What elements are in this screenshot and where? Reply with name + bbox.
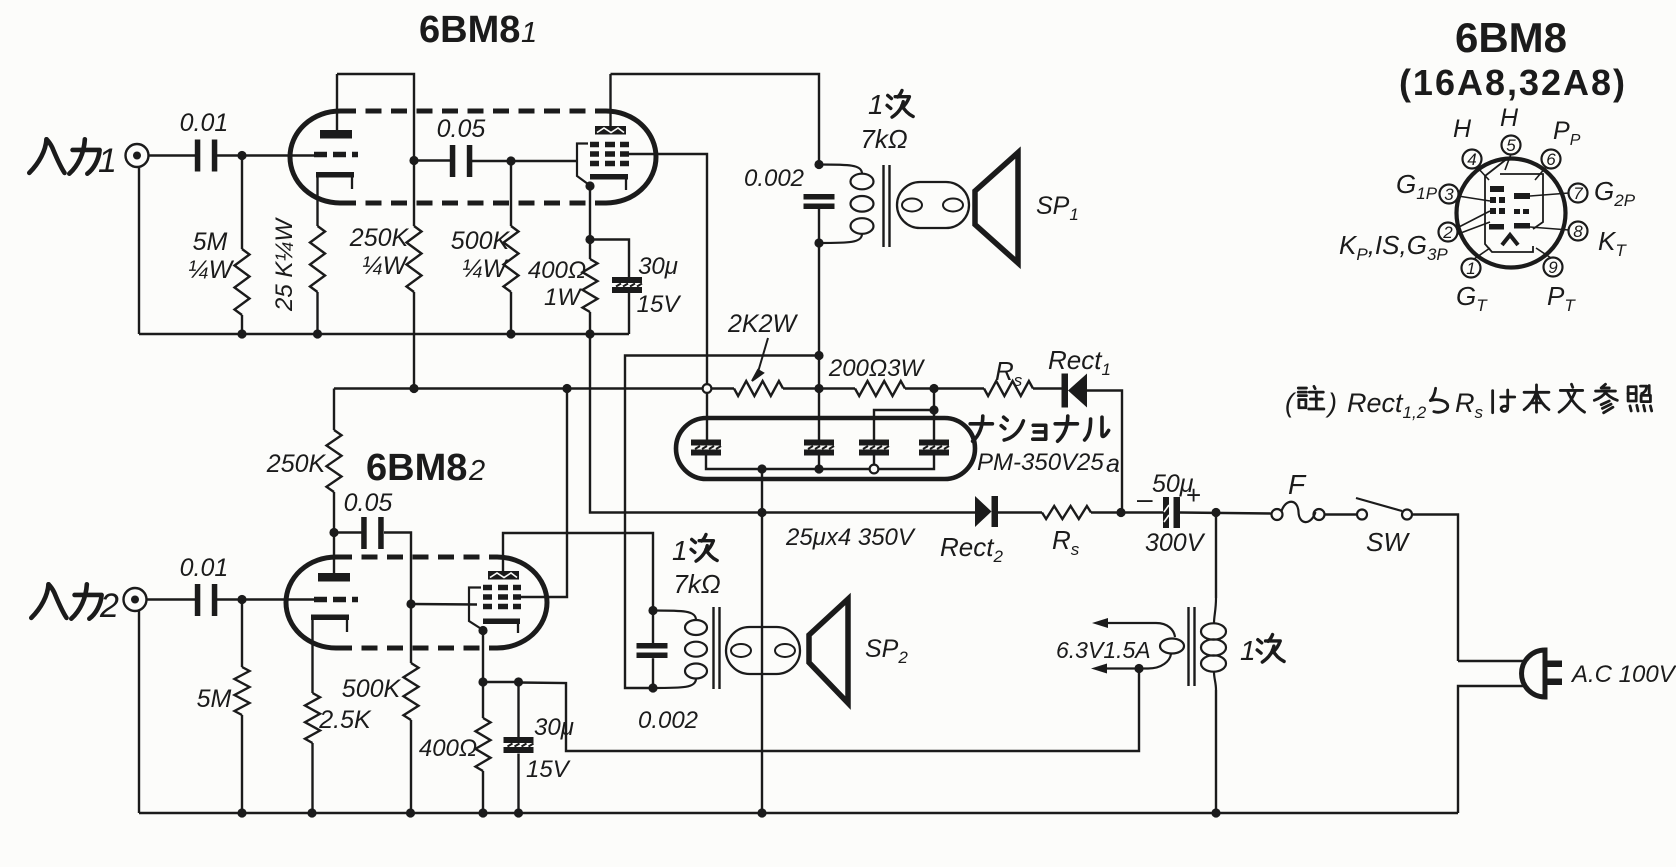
node T2 primary top xyxy=(648,606,657,615)
resistor R3 250K 1/4W xyxy=(407,161,422,389)
pin 5 xyxy=(1502,136,1521,156)
resistor R4 500K 1/4W xyxy=(504,161,519,334)
svg-text:8: 8 xyxy=(1573,222,1583,241)
svg-text:1: 1 xyxy=(1466,259,1475,278)
label 6.3V 1.5A xyxy=(1056,637,1151,663)
diode Rect2 xyxy=(975,496,998,527)
label C5 300V xyxy=(1145,529,1206,557)
label C3 30u 15V xyxy=(637,253,682,318)
label pin4 H xyxy=(1453,115,1472,143)
wire C9 segments xyxy=(652,611,654,689)
label F xyxy=(1288,469,1307,500)
triode V1a cathode xyxy=(316,172,354,189)
svg-text:2K2W: 2K2W xyxy=(727,310,798,338)
heater arrow bottom xyxy=(1091,664,1107,674)
svg-text:¼W: ¼W xyxy=(462,255,509,283)
resistor R7 200ohm 3W xyxy=(855,381,905,396)
connector J2 input jack 2 xyxy=(124,588,147,611)
pinout internal electrodes xyxy=(1489,186,1530,230)
tube V1 envelope top xyxy=(340,109,606,114)
label C5 minus xyxy=(1137,483,1153,514)
node T1 primary bottom xyxy=(814,238,823,247)
node B- lower xyxy=(757,508,766,517)
wire R1 bottom xyxy=(241,315,243,334)
svg-text:3: 3 xyxy=(1444,185,1454,204)
svg-text:15V: 15V xyxy=(637,291,682,318)
svg-text:–: – xyxy=(1137,483,1153,514)
svg-text:30μ: 30μ xyxy=(534,714,574,741)
label R9 250K xyxy=(266,450,327,478)
capacitor C6 0.01 xyxy=(195,584,218,616)
wire switch to plug xyxy=(1412,515,1458,662)
resistor R11 500K xyxy=(404,604,419,813)
wire Rs2 to nodeX xyxy=(1091,511,1164,513)
wire V1a plate top bracket xyxy=(337,74,414,161)
label SP2 xyxy=(865,635,908,667)
wire C2 to pentode grid xyxy=(472,160,577,162)
node heater junction xyxy=(1134,664,1143,673)
label C5 plus xyxy=(1186,480,1201,510)
pin 8 xyxy=(1569,222,1588,242)
capacitor-can outline xyxy=(676,418,975,479)
resistor R5 400ohm 1W xyxy=(583,240,598,335)
wire V1a plate lead xyxy=(336,74,338,130)
resistor R10 2.5K xyxy=(305,620,320,813)
pin 6 xyxy=(1542,150,1561,170)
svg-text:1: 1 xyxy=(1240,635,1256,666)
pentode V1b grid row2 xyxy=(590,151,629,157)
label C4 0.002 xyxy=(744,165,804,192)
pin 2 xyxy=(1439,223,1458,243)
wire J2 to C6 xyxy=(147,598,197,600)
transformer T1 core xyxy=(884,165,890,247)
wire grid2p to pentode xyxy=(411,603,477,606)
wire C3 bottom xyxy=(628,293,630,334)
svg-text:9: 9 xyxy=(1548,258,1558,277)
wire fuse to switch xyxy=(1325,513,1358,515)
wire J1 to C1 xyxy=(149,154,197,156)
wire C6 to V2 grid xyxy=(215,598,314,600)
tube V2 envelope top xyxy=(336,555,497,560)
wire R2 bottom xyxy=(316,292,318,334)
wire B- drop xyxy=(761,469,763,813)
svg-text:+: + xyxy=(1186,480,1201,510)
capacitor C5 50u 300V xyxy=(1163,497,1180,528)
svg-text:250K: 250K xyxy=(266,450,327,478)
svg-text:1: 1 xyxy=(521,17,537,49)
label R8 5M xyxy=(197,685,232,713)
svg-text:6: 6 xyxy=(1546,150,1556,169)
svg-text:250K: 250K xyxy=(349,224,410,252)
wire T1 B+ drop xyxy=(818,209,820,440)
capacitor can-C4 25u xyxy=(919,440,949,456)
label R2 25K 1/4W rotated xyxy=(271,217,298,312)
svg-text:2: 2 xyxy=(1442,223,1453,242)
wire ch1 ground rail xyxy=(139,333,629,335)
capacitor C4 0.002 xyxy=(804,194,835,209)
svg-text:25 K¼W: 25 K¼W xyxy=(271,217,298,312)
label R5 400 1W xyxy=(528,257,586,311)
svg-text:2: 2 xyxy=(468,455,485,487)
svg-text:400Ω: 400Ω xyxy=(419,735,477,762)
pentode V2b plate xyxy=(488,571,519,580)
label T2 1ji 7k xyxy=(672,534,721,599)
wire V1b screen to can xyxy=(629,154,707,440)
node cathode2 RC split xyxy=(478,677,487,686)
svg-text:4: 4 xyxy=(1467,150,1476,169)
label R7 200 3W xyxy=(828,355,926,382)
transformer T1 secondary xyxy=(897,182,969,228)
diode Rect1 xyxy=(1062,374,1088,408)
node grid2p junction xyxy=(406,599,415,608)
resistor Rs1 xyxy=(984,381,1033,396)
svg-text:15V: 15V xyxy=(526,756,571,783)
label Rs2 xyxy=(1052,525,1080,559)
svg-text:0.01: 0.01 xyxy=(180,554,229,582)
label T1 1ji 7k xyxy=(860,89,913,154)
pentode V1b plate xyxy=(595,126,626,135)
svg-text:30μ: 30μ xyxy=(638,253,678,280)
svg-text:0.002: 0.002 xyxy=(638,707,698,734)
speaker SP1 xyxy=(975,153,1018,264)
wire gnd to rect2 xyxy=(590,334,762,513)
svg-text:5M: 5M xyxy=(197,685,232,713)
resistor R2 25K 1/4W xyxy=(310,226,325,292)
label R3 250K 1/4W xyxy=(349,224,410,280)
transformer T3 core xyxy=(1189,607,1195,686)
triode V2a plate xyxy=(318,573,350,582)
label C5 50u xyxy=(1152,470,1194,498)
node plate1 junction xyxy=(409,156,418,165)
capacitor C7 0.05 xyxy=(361,517,384,549)
triode V1a grid dashes xyxy=(314,152,358,158)
tube V1 envelope right arc xyxy=(606,111,656,203)
speaker SP2 xyxy=(809,599,848,703)
pentode V2b grid row3 xyxy=(483,604,521,610)
svg-text:A.C 100V: A.C 100V xyxy=(1570,661,1676,688)
pentode V2b grid row2 xyxy=(483,594,521,600)
capacitor C6 0.01 label xyxy=(180,554,229,582)
switch SW xyxy=(1356,498,1412,520)
node V2b screen tap xyxy=(562,384,571,393)
pin 3 xyxy=(1440,185,1459,205)
svg-text:200Ω3W: 200Ω3W xyxy=(828,355,926,382)
svg-text:25μx4 350V: 25μx4 350V xyxy=(785,524,916,551)
svg-text:300V: 300V xyxy=(1145,529,1206,557)
label pin9 PT xyxy=(1547,281,1576,315)
label pin8 KT xyxy=(1598,226,1627,260)
wire cap3 feed xyxy=(874,410,934,440)
svg-text:7: 7 xyxy=(1573,184,1583,203)
svg-text:0.002: 0.002 xyxy=(744,165,804,192)
pentode V1b cathode xyxy=(590,174,628,190)
label pin1 GT xyxy=(1456,281,1488,315)
note rect rs xyxy=(1285,384,1652,422)
pentode V2b grid row1 xyxy=(483,585,521,591)
svg-text:0.05: 0.05 xyxy=(437,115,486,143)
node 500K tap xyxy=(506,156,515,165)
node can C3 bus open xyxy=(870,465,879,474)
tube V2 envelope right arc xyxy=(497,557,547,648)
svg-text:SW: SW xyxy=(1366,527,1410,557)
wire rect2 left xyxy=(762,511,975,513)
svg-text:5: 5 xyxy=(1506,136,1516,155)
pentode V2b grid bracket xyxy=(469,588,483,631)
capacitor C3 30u 15V xyxy=(612,277,642,293)
node R10-gnd xyxy=(406,808,415,817)
svg-text:6BM8: 6BM8 xyxy=(1455,14,1567,61)
wire V2b plate lead xyxy=(503,533,653,611)
pentode V1b grid row3 xyxy=(590,161,629,167)
plug prongs xyxy=(1545,661,1562,686)
label R11 500K xyxy=(342,675,402,703)
label 16A8 32A8 xyxy=(1399,62,1627,103)
node V2b cathode junction xyxy=(478,626,487,635)
wire C8 branch xyxy=(483,681,519,683)
resistor Rs2 xyxy=(1042,506,1091,519)
label C9 0.002 xyxy=(638,707,698,734)
wire V1a cathode lead xyxy=(316,178,318,227)
svg-text:¼W: ¼W xyxy=(188,256,235,284)
label R4 500K 1/4W xyxy=(451,227,511,283)
node R8-gnd xyxy=(237,808,246,817)
label Rect1 xyxy=(1048,345,1111,379)
label can natsionaru xyxy=(970,416,1108,441)
triode V1a plate xyxy=(320,130,352,139)
svg-text:H: H xyxy=(1453,115,1472,143)
transformer T2 primary xyxy=(653,611,707,689)
node R4-gnd xyxy=(506,329,515,338)
pentode V1b grid row1 xyxy=(590,142,629,148)
label AC 100V xyxy=(1570,661,1676,688)
plug AC body xyxy=(1522,650,1545,697)
tube V2 envelope left arc xyxy=(286,557,336,648)
tube V1 envelope left arc xyxy=(290,111,340,203)
wire 200 to Rs xyxy=(905,387,934,389)
wire V1b cathode lead xyxy=(589,186,591,240)
wire V1b plate top bracket xyxy=(611,74,820,165)
node screen open circle xyxy=(703,384,712,393)
transformer T1 primary xyxy=(819,165,874,244)
svg-text:5M: 5M xyxy=(193,228,228,256)
svg-text:1W: 1W xyxy=(544,284,582,311)
transformer T2 secondary xyxy=(726,627,800,674)
svg-text:0.01: 0.01 xyxy=(180,109,229,137)
pinout circle xyxy=(1457,159,1566,268)
wire plug bottom xyxy=(1458,686,1524,813)
resistor R12 400ohm xyxy=(476,682,491,813)
wire plate2 to C7 xyxy=(334,531,366,533)
svg-text:7kΩ: 7kΩ xyxy=(860,124,907,154)
svg-text:2: 2 xyxy=(99,587,119,625)
wire B+ line xyxy=(334,387,734,389)
node T3 gnd xyxy=(1211,808,1220,817)
node AC tap xyxy=(1211,508,1220,517)
wire V1b plate lead xyxy=(609,74,611,126)
label T3 1ji xyxy=(1240,635,1284,666)
pinout heater chevron xyxy=(1502,235,1518,245)
node C8 top xyxy=(514,677,523,686)
pentode V2b cathode xyxy=(483,619,520,634)
capacitor C1 0.01 xyxy=(195,140,218,172)
node B- rail xyxy=(757,808,766,817)
capacitor C7 0.05 label xyxy=(344,489,393,517)
svg-text:a: a xyxy=(1106,450,1120,478)
node R9-gnd xyxy=(307,808,316,817)
capacitor C2 0.05 xyxy=(450,145,473,177)
label 6BM8 title xyxy=(1455,14,1567,61)
resistor R9 250K xyxy=(327,389,342,533)
svg-text:¼W: ¼W xyxy=(362,252,409,280)
svg-text:(16A8,32A8): (16A8,32A8) xyxy=(1399,62,1627,103)
wire heater return xyxy=(519,669,1139,752)
transformer T3 heater winding xyxy=(1107,623,1184,669)
svg-text:2.5K: 2.5K xyxy=(318,706,372,734)
svg-text:1: 1 xyxy=(672,535,688,566)
label Rs1 xyxy=(995,356,1023,390)
label input-2 入力2 xyxy=(31,584,119,625)
svg-text:1: 1 xyxy=(98,142,117,180)
node X xyxy=(1116,508,1125,517)
svg-text:PM-350V25: PM-350V25 xyxy=(977,449,1104,476)
wire J1 ground drop xyxy=(138,167,140,334)
node R1-gnd xyxy=(237,329,246,338)
label R6 2K2W xyxy=(727,310,798,381)
pin 4 xyxy=(1463,150,1482,170)
node R2-gnd xyxy=(313,329,322,338)
node R3 bottom B+ xyxy=(409,384,418,393)
svg-text:6BM8: 6BM8 xyxy=(419,9,520,51)
node B+ OPT junction xyxy=(814,384,823,393)
wire plug top xyxy=(1458,660,1524,662)
wire C8 lead xyxy=(517,682,519,737)
wire V2b screen xyxy=(521,389,567,598)
svg-text:1: 1 xyxy=(868,89,884,120)
pentode V1b grid bracket xyxy=(577,144,590,186)
label SW xyxy=(1366,527,1410,557)
capacitor C1 0.01 label xyxy=(180,109,229,137)
node T2 primary bottom xyxy=(648,683,657,692)
pin 1 xyxy=(1462,259,1481,279)
wire Rect1 to node X xyxy=(1087,391,1122,513)
node R5-gnd xyxy=(585,329,594,338)
label Rect2 xyxy=(940,532,1003,566)
label can 25ux4 350V xyxy=(785,524,916,551)
wire 5M R1 top xyxy=(241,156,243,250)
label V1 6BM8 1 xyxy=(419,9,537,51)
triode V2a cathode xyxy=(311,615,349,633)
label input-1 入力1 xyxy=(29,139,117,180)
resistor R1 5M 1/4W xyxy=(235,249,250,315)
capacitor C9 0.002 xyxy=(637,643,668,658)
wire C5 to fuse node xyxy=(1180,513,1272,514)
heater arrow top xyxy=(1092,618,1108,628)
label R12 400 xyxy=(419,735,477,762)
transformer T3 primary xyxy=(1201,513,1226,691)
label SP1 xyxy=(1036,192,1079,224)
label C8 30u 15V xyxy=(526,714,574,783)
wire C3 branch xyxy=(590,240,629,278)
pinout pin wires xyxy=(1457,154,1569,259)
wire T2 B+ feed xyxy=(625,356,819,689)
transformer T2 core xyxy=(714,607,720,689)
wire plate2 lead xyxy=(333,533,335,574)
svg-text:F: F xyxy=(1288,469,1307,500)
svg-text:6.3V1.5A: 6.3V1.5A xyxy=(1056,637,1151,663)
node cathode1 RC split xyxy=(585,235,594,244)
label pin5 H xyxy=(1500,104,1519,132)
wire Rs1 left xyxy=(934,387,984,389)
pin 9 xyxy=(1544,258,1563,278)
tube V1 envelope bottom xyxy=(340,201,606,206)
connector J1 input jack 1 xyxy=(126,144,149,167)
wire C8 bottom xyxy=(517,754,519,814)
label pin6 PP xyxy=(1553,117,1581,149)
label V2 6BM8 2 xyxy=(366,447,485,489)
wire 2K to 200 xyxy=(783,387,855,389)
resistor R6 2K 2W xyxy=(734,381,783,396)
label R1 5M 1/4W xyxy=(188,228,235,284)
node cap34 jog xyxy=(929,405,938,414)
tube V2 envelope bottom xyxy=(336,646,497,651)
resistor R8 5M xyxy=(235,600,250,814)
triode V2a grid dashes xyxy=(314,597,358,603)
wire C1 to V1 grid xyxy=(215,154,314,156)
label pin3 G1P xyxy=(1396,169,1438,203)
node grid1 junction xyxy=(237,151,246,160)
capacitor can-C1 25u xyxy=(691,440,721,456)
node can C2 bus xyxy=(814,464,823,473)
label pin7 G2P xyxy=(1594,176,1636,210)
svg-text:400Ω: 400Ω xyxy=(528,257,586,284)
node can bus B- xyxy=(757,464,766,473)
svg-text:H: H xyxy=(1500,104,1519,132)
svg-text:500K: 500K xyxy=(342,675,402,703)
label pin2 KP IS G3P xyxy=(1339,230,1448,264)
pin 7 xyxy=(1569,184,1588,204)
svg-text:500K: 500K xyxy=(451,227,511,255)
wire Rs1 to Rect1 xyxy=(1033,387,1063,389)
fuse F xyxy=(1272,502,1325,522)
wire C7 to grid node xyxy=(384,533,411,605)
node plate2 junction xyxy=(329,528,338,537)
svg-text:6BM8: 6BM8 xyxy=(366,447,467,489)
wire rect2 to Rs2 xyxy=(998,511,1042,513)
wire cap4 feed xyxy=(933,389,935,441)
svg-text:7kΩ: 7kΩ xyxy=(673,569,720,599)
wire J2 ground drop xyxy=(138,611,140,813)
wire V2b cathode lead xyxy=(482,631,484,683)
capacitor can-C3 25u xyxy=(859,440,889,456)
node T1 feed junction xyxy=(814,351,823,360)
capacitor can-C2 25u xyxy=(804,440,834,456)
capacitor C2 0.05 label xyxy=(437,115,486,143)
node grid2 junction xyxy=(237,595,246,604)
label can PM-350V25a xyxy=(977,449,1120,478)
svg-text:0.05: 0.05 xyxy=(344,489,393,517)
node B+ first filter xyxy=(929,384,938,393)
pinout internal shield xyxy=(1485,158,1543,252)
node V1b cathode junction xyxy=(585,181,594,190)
wire plate1 to C2 xyxy=(414,159,455,161)
node R11-gnd xyxy=(478,808,487,817)
node T1 primary top xyxy=(814,160,823,169)
label R10 2.5K xyxy=(318,706,372,734)
wire can bus xyxy=(706,456,934,470)
wire T3 primary bottom xyxy=(1215,690,1217,813)
node C8-gnd xyxy=(514,808,523,817)
wire bottom rail xyxy=(139,812,1458,814)
